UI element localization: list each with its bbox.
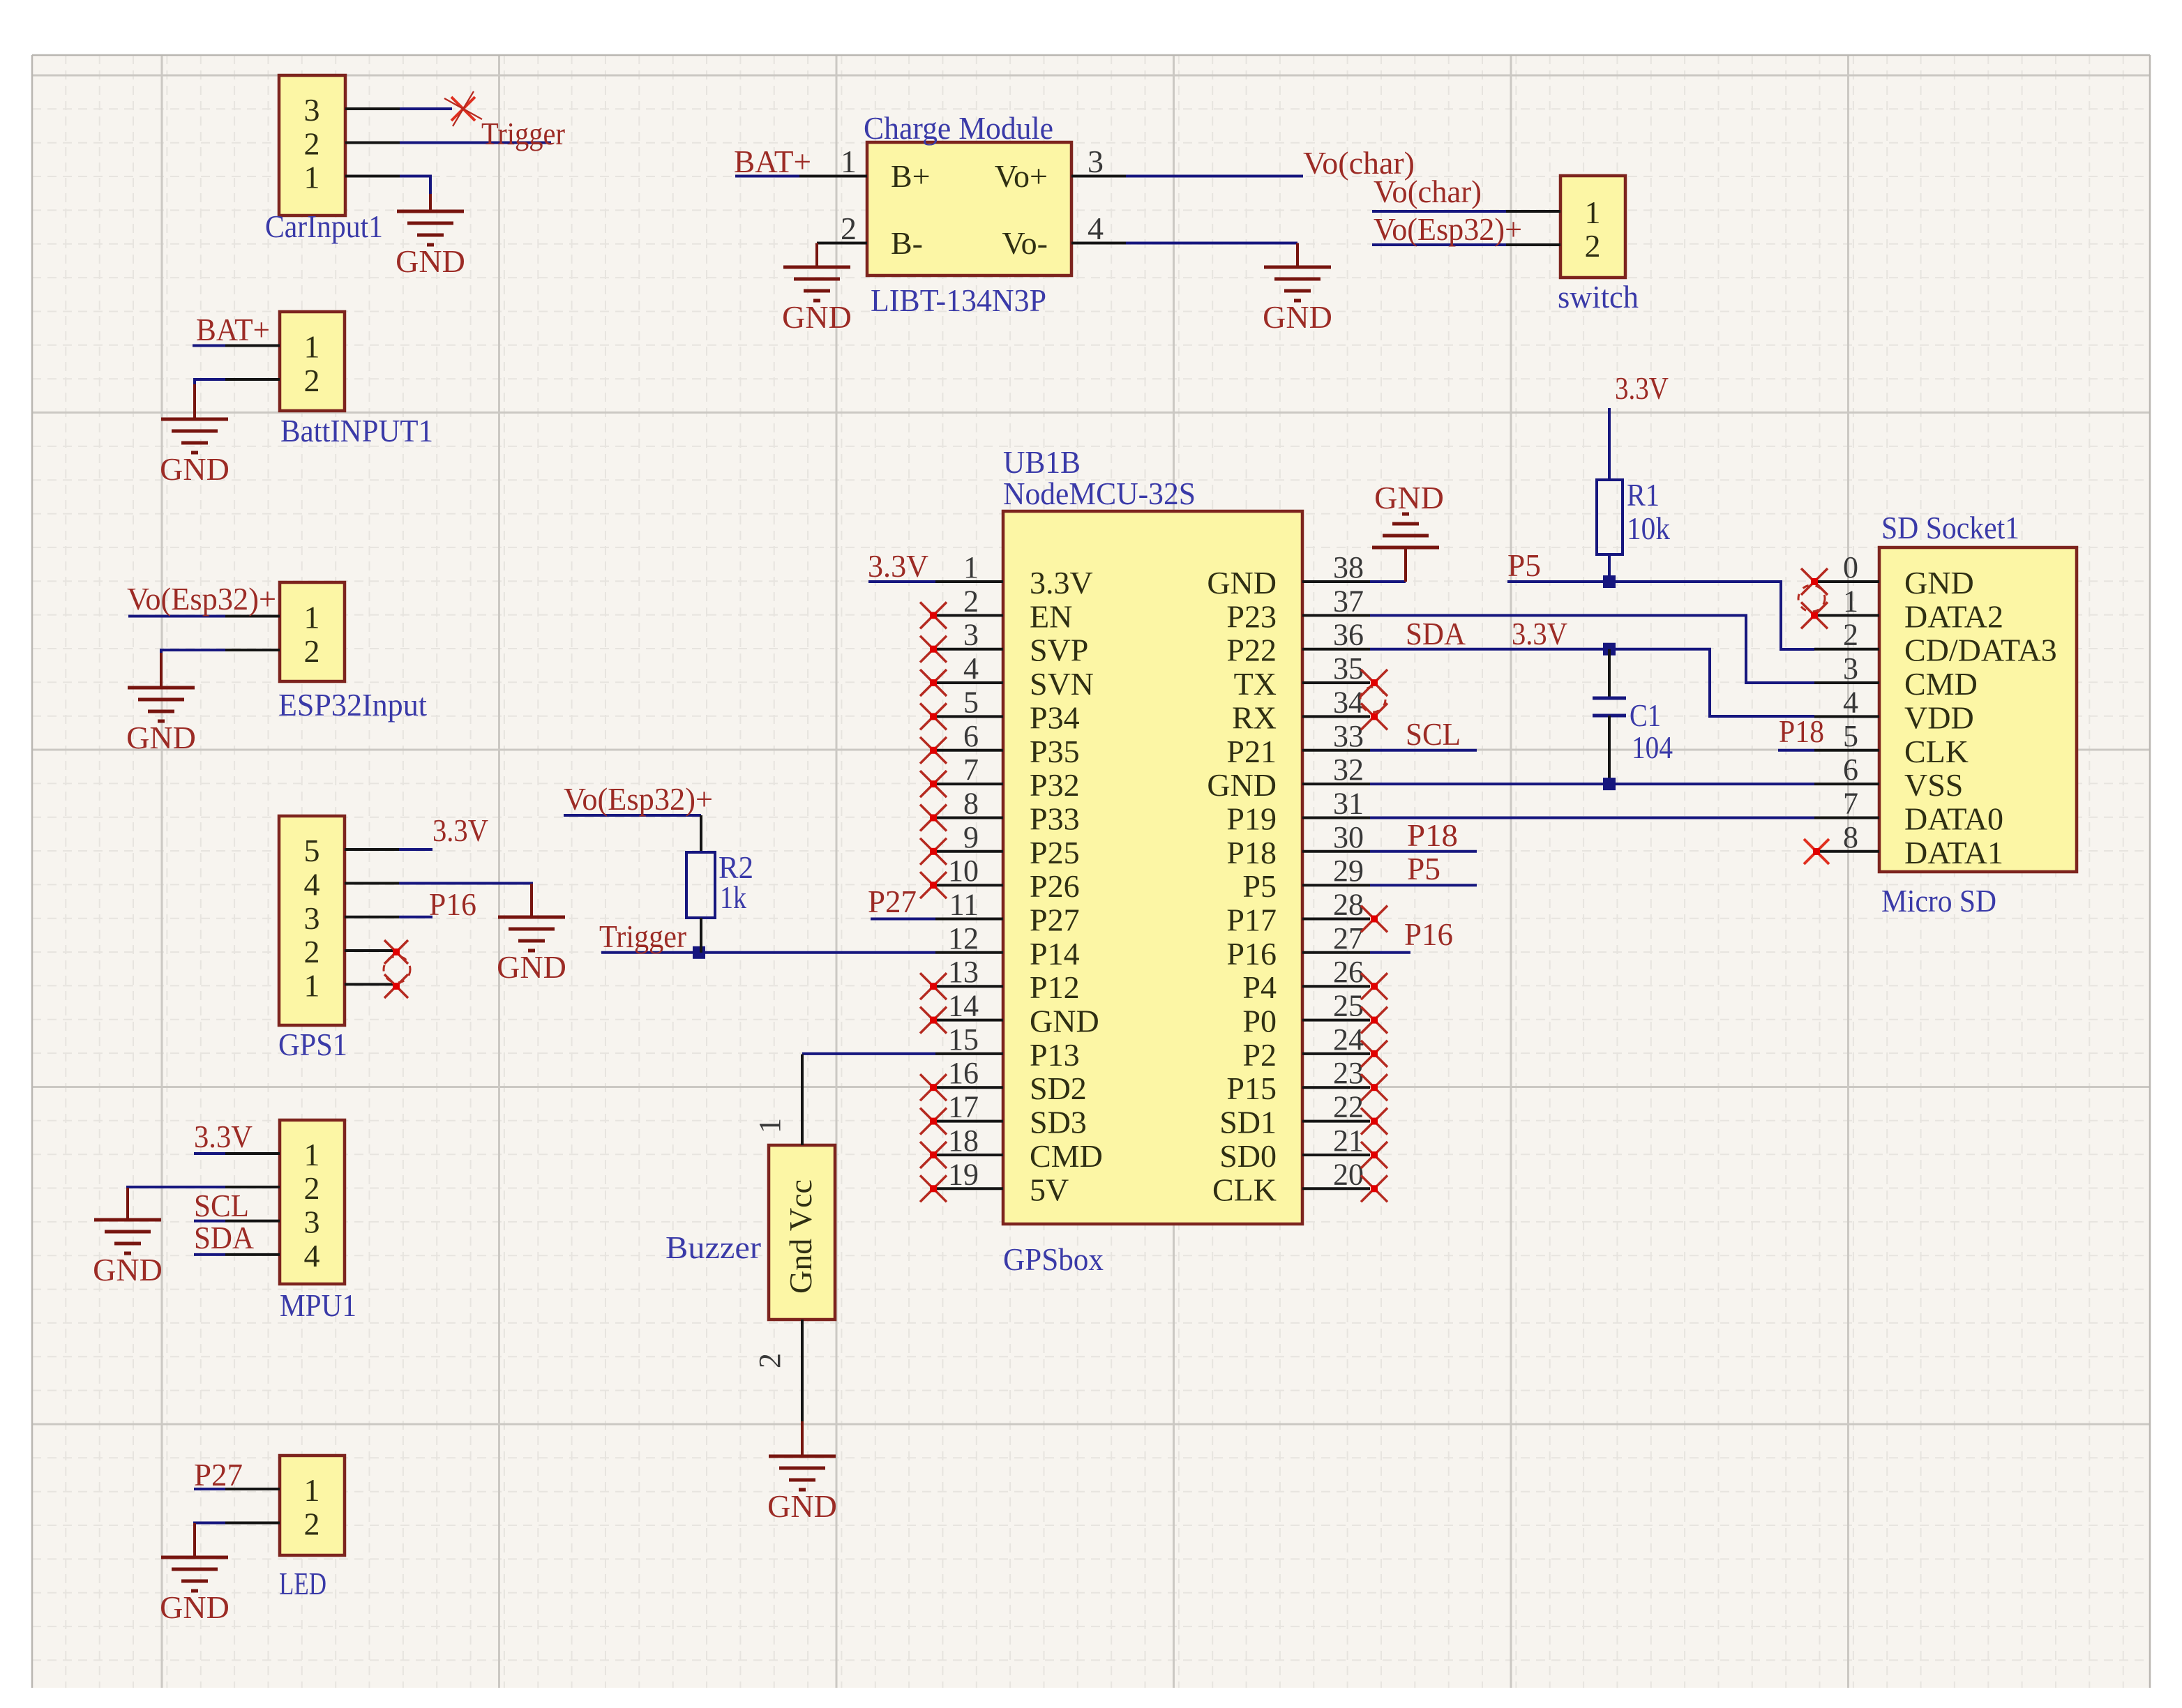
svg-text:VDD: VDD — [1904, 700, 1974, 735]
svg-text:Buzzer: Buzzer — [665, 1230, 761, 1265]
svg-text:2: 2 — [963, 584, 979, 618]
svg-text:4: 4 — [1088, 211, 1104, 246]
svg-text:10k: 10k — [1627, 511, 1670, 546]
svg-text:P19: P19 — [1226, 801, 1277, 837]
SD pin 3 (CMD) — [1814, 681, 1879, 684]
svg-text:P27: P27 — [868, 884, 917, 919]
wire charge Vo- to ground — [1126, 242, 1297, 245]
svg-text:SVN: SVN — [1030, 666, 1094, 702]
svg-text:GPSbox: GPSbox — [1003, 1241, 1104, 1277]
chip pin 8 (P33) — [935, 817, 1003, 819]
wire CarInput pin1 to ground — [400, 176, 430, 195]
svg-text:25: 25 — [1333, 989, 1364, 1023]
no-connect X on chip pin 10 — [920, 872, 947, 898]
svg-text:5V: 5V — [1030, 1172, 1069, 1207]
wire BattINPUT pin2 to ground — [195, 379, 225, 384]
svg-text:3.3V: 3.3V — [194, 1119, 253, 1154]
chip pin 34 (RX) — [1302, 715, 1370, 718]
svg-text:LIBT-134N3P: LIBT-134N3P — [871, 282, 1046, 318]
SD pin 8 (DATA1) — [1814, 850, 1879, 853]
svg-text:P27: P27 — [1030, 902, 1080, 938]
chip pin 20 (CLK) — [1302, 1187, 1370, 1190]
wire net SCL (MPU pin3) — [194, 1220, 225, 1223]
wire net Vo(char) (charge Vo+) — [1126, 175, 1303, 178]
svg-text:P18: P18 — [1407, 817, 1458, 853]
svg-text:CMD: CMD — [1030, 1138, 1103, 1174]
ground GND (charge B-) — [815, 244, 818, 267]
svg-text:P16: P16 — [1404, 916, 1453, 952]
connector ESP32Input — [280, 582, 345, 681]
svg-text:8: 8 — [963, 787, 979, 821]
wire net 3.3V (chip pin1) — [868, 580, 935, 583]
svg-text:104: 104 — [1632, 730, 1673, 765]
chip pin 37 (P23) — [1302, 614, 1370, 617]
svg-text:P22: P22 — [1226, 633, 1277, 668]
no-connect X on SD pin0 — [1801, 568, 1828, 595]
wire net Trigger (CarInput pin2) — [400, 142, 551, 144]
wire net P18 (SD CLK) — [1778, 749, 1814, 752]
wire net Vo(Esp32)+ (switch pin2) — [1372, 243, 1506, 246]
svg-text:GND: GND — [1263, 299, 1332, 335]
no-connect X on chip pin 22 — [1361, 1108, 1387, 1135]
chip pin 35 (TX) — [1302, 681, 1370, 684]
svg-text:GND: GND — [160, 1589, 230, 1625]
no-connect X on CarInput pin3 — [451, 97, 475, 121]
resistor R2 1k — [700, 815, 702, 852]
svg-text:Vo-: Vo- — [1002, 225, 1048, 261]
connector MPU1 — [280, 1120, 345, 1284]
svg-text:Vo(Esp32)+: Vo(Esp32)+ — [1374, 211, 1522, 247]
resistor R1 10k — [1597, 480, 1623, 554]
svg-text:SD0: SD0 — [1219, 1138, 1277, 1174]
chip pin 17 (SD3) — [935, 1120, 1003, 1123]
no-connect X on chip pin 17 — [920, 1108, 947, 1135]
svg-text:5: 5 — [963, 685, 979, 719]
svg-text:3.3V: 3.3V — [868, 548, 928, 584]
no-connect X on chip pin 19 — [920, 1175, 947, 1202]
capacitor C1 104 — [1608, 649, 1611, 698]
svg-text:C1: C1 — [1630, 697, 1661, 733]
svg-text:Trigger: Trigger — [481, 116, 565, 151]
no-connect X on chip pin 13 — [920, 973, 947, 999]
chip pin 15 (P13) — [935, 1052, 1003, 1055]
svg-text:Trigger: Trigger — [599, 919, 686, 954]
junction node C1 bottom — [1603, 778, 1616, 790]
svg-text:SD2: SD2 — [1030, 1071, 1087, 1106]
svg-text:DATA2: DATA2 — [1904, 598, 2003, 634]
junction node Trigger/R2 — [693, 946, 705, 959]
svg-text:5: 5 — [1843, 719, 1858, 753]
no-connect X on SD pin1 — [1801, 602, 1828, 628]
svg-text:26: 26 — [1333, 955, 1364, 989]
svg-text:CLK: CLK — [1212, 1172, 1277, 1207]
svg-text:VSS: VSS — [1904, 767, 1963, 803]
junction node C1 top — [1603, 643, 1616, 656]
svg-text:1: 1 — [304, 1472, 320, 1508]
svg-text:switch: switch — [1558, 279, 1639, 315]
wire net SCL (chip pin33) — [1370, 749, 1477, 752]
svg-text:SCL: SCL — [1406, 716, 1461, 752]
svg-text:R1: R1 — [1627, 477, 1660, 513]
wire net 3.3V (MPU pin1) — [194, 1152, 225, 1155]
svg-text:1k: 1k — [720, 879, 746, 915]
chip pin 3 (SVP) — [935, 648, 1003, 651]
svg-text:P27: P27 — [194, 1457, 243, 1492]
svg-text:P17: P17 — [1226, 902, 1277, 938]
pin 2 (B-) of charge module — [817, 242, 867, 245]
no-connect X on chip pin 5 — [920, 703, 947, 730]
chip pin 38 (GND) — [1302, 580, 1370, 583]
svg-text:BAT+: BAT+ — [196, 312, 270, 347]
SD pin 7 (DATA0) — [1814, 817, 1879, 819]
chip pin 1 (3.3V) — [935, 580, 1003, 583]
wire net Vo(char) (switch pin1) — [1372, 210, 1506, 213]
svg-text:B-: B- — [891, 225, 923, 261]
wire net Trigger (chip pin12) — [601, 951, 935, 954]
svg-text:1: 1 — [304, 329, 320, 365]
svg-text:GND: GND — [782, 299, 852, 335]
chip pin 4 (SVN) — [935, 681, 1003, 684]
svg-text:LED: LED — [279, 1566, 326, 1601]
svg-text:GND: GND — [160, 451, 230, 487]
wire net 3.3V/SDA (chip pin36 to SD VDD) — [1370, 649, 1814, 716]
svg-text:DATA0: DATA0 — [1904, 801, 2003, 837]
svg-text:P0: P0 — [1242, 1004, 1277, 1039]
no-connect X on chip pin 6 — [920, 737, 947, 764]
wire charge B- to ground — [815, 243, 818, 245]
SD pin 2 (CD/DATA3) — [1814, 648, 1879, 651]
svg-text:23: 23 — [1333, 1056, 1364, 1090]
wire CarInput pin3 stub — [400, 107, 452, 110]
ground GND (GPS1) — [530, 884, 533, 917]
ground GND (BattINPUT1) — [193, 384, 196, 419]
svg-text:GND: GND — [1374, 480, 1444, 515]
wire net BAT+ (BattINPUT pin1) — [193, 345, 225, 347]
svg-text:1: 1 — [304, 967, 320, 1003]
svg-text:GND: GND — [767, 1488, 837, 1524]
svg-text:P33: P33 — [1030, 801, 1080, 837]
svg-text:12: 12 — [948, 921, 979, 955]
wire net P5 (R1 bottom to SD CD/DATA3) — [1507, 582, 1814, 649]
svg-text:19: 19 — [948, 1157, 979, 1191]
wire net 3.3V (GPS pin5) — [399, 848, 432, 851]
wire LED pin2 to ground — [195, 1522, 225, 1525]
svg-text:Micro SD: Micro SD — [1881, 883, 1996, 919]
svg-text:8: 8 — [1843, 820, 1858, 854]
chip pin 2 (EN) — [935, 614, 1003, 617]
svg-text:CD/DATA3: CD/DATA3 — [1904, 633, 2057, 668]
svg-text:4: 4 — [963, 651, 979, 686]
connector CarInput1 — [279, 75, 345, 216]
no-connect X on chip pin 7 — [920, 771, 947, 797]
svg-text:3: 3 — [1088, 144, 1104, 179]
svg-text:3: 3 — [304, 92, 320, 128]
chip pin 31 (P19) — [1302, 817, 1370, 819]
svg-text:2: 2 — [1585, 228, 1601, 264]
no-ERC dashed circle (chip pins 35/34) — [1360, 687, 1385, 712]
wire chip pin38 to ground — [1370, 580, 1406, 583]
SD pin 0 (GND) — [1814, 580, 1879, 583]
svg-text:22: 22 — [1333, 1090, 1364, 1124]
svg-text:35: 35 — [1333, 651, 1364, 686]
wire net 3.3V (R1 top) — [1608, 408, 1611, 480]
wire net SDA (MPU pin4) — [194, 1253, 225, 1256]
IC UB1B NodeMCU-32S (GPSbox) — [1003, 511, 1302, 1224]
chip pin 6 (P35) — [935, 749, 1003, 752]
svg-text:1: 1 — [304, 600, 320, 635]
svg-text:2: 2 — [841, 211, 857, 246]
svg-text:P16: P16 — [1226, 936, 1277, 972]
svg-text:SD Socket1: SD Socket1 — [1881, 510, 2019, 545]
pin 1 (B+) of charge module — [799, 175, 867, 178]
no-connect X on chip pin 25 — [1361, 1007, 1387, 1034]
svg-text:7: 7 — [963, 753, 979, 787]
wire net P19 (chip pin31 to SD DATA0) — [1370, 817, 1814, 819]
wire net P5 (chip pin29) — [1370, 884, 1477, 886]
svg-text:3.3V: 3.3V — [432, 813, 488, 848]
buzzer pin 1 — [801, 1055, 804, 1145]
svg-text:P35: P35 — [1030, 734, 1080, 769]
svg-text:1: 1 — [963, 550, 979, 584]
chip pin 32 (GND) — [1302, 783, 1370, 785]
svg-text:SCL: SCL — [194, 1188, 249, 1223]
svg-text:33: 33 — [1333, 719, 1364, 753]
svg-text:3: 3 — [1843, 651, 1858, 686]
svg-text:GND: GND — [1207, 565, 1277, 600]
no-connect X on chip pin 21 — [1361, 1142, 1387, 1168]
svg-text:10: 10 — [948, 854, 979, 888]
no-connect X on chip pin 18 — [920, 1142, 947, 1168]
SD pin 1 (DATA2) — [1814, 614, 1879, 617]
svg-text:Vo(Esp32)+: Vo(Esp32)+ — [564, 781, 713, 817]
wire net Vo(Esp32)+ (ESP32Input pin1) — [128, 615, 225, 618]
svg-text:P18: P18 — [1779, 713, 1824, 749]
chip pin 14 (GND) — [935, 1019, 1003, 1022]
svg-text:31: 31 — [1333, 787, 1364, 821]
svg-text:P26: P26 — [1030, 868, 1080, 904]
svg-text:27: 27 — [1333, 921, 1364, 955]
svg-text:1: 1 — [841, 144, 857, 179]
wire net BAT+ (charge B+) — [735, 175, 799, 178]
svg-text:17: 17 — [948, 1090, 979, 1124]
chip pin 29 (P5) — [1302, 884, 1370, 886]
connector GPS1 — [279, 816, 345, 1025]
svg-text:1: 1 — [753, 1118, 787, 1133]
component Buzzer — [769, 1145, 835, 1320]
chip pin 5 (P34) — [935, 715, 1003, 718]
wire net P18 (chip pin30) — [1370, 850, 1477, 853]
svg-text:2: 2 — [304, 1506, 320, 1542]
svg-text:NodeMCU-32S: NodeMCU-32S — [1003, 476, 1196, 511]
svg-text:7: 7 — [1843, 787, 1858, 821]
svg-text:29: 29 — [1333, 854, 1364, 888]
svg-text:P15: P15 — [1226, 1071, 1277, 1106]
ground GND (MPU1) — [126, 1188, 129, 1220]
svg-text:P16: P16 — [429, 886, 476, 922]
svg-text:9: 9 — [963, 820, 979, 854]
svg-text:CMD: CMD — [1904, 666, 1978, 702]
no-connect X on chip pin 9 — [920, 838, 947, 865]
wire GPS pin4 to ground — [399, 882, 532, 886]
chip pin 21 (SD0) — [1302, 1154, 1370, 1156]
wire net P23 (chip pin37 to SD CMD) — [1370, 615, 1814, 683]
svg-text:GPS1: GPS1 — [278, 1027, 347, 1062]
wire net P16 (chip pin27) — [1370, 951, 1410, 954]
svg-text:2: 2 — [1843, 618, 1858, 652]
svg-text:1: 1 — [304, 160, 320, 195]
svg-text:24: 24 — [1333, 1022, 1364, 1057]
svg-text:2: 2 — [304, 363, 320, 398]
svg-text:5: 5 — [304, 833, 320, 868]
no-connect X on GPS pin2 — [384, 940, 408, 964]
chip pin 18 (CMD) — [935, 1154, 1003, 1156]
wire MPU pin2 to ground — [128, 1187, 225, 1188]
svg-text:38: 38 — [1333, 550, 1364, 584]
no-connect X on chip pin 16 — [920, 1074, 947, 1101]
connector BattINPUT1 — [280, 312, 345, 411]
chip pin 19 (5V) — [935, 1187, 1003, 1190]
no-connect X on chip pin 2 — [920, 602, 947, 628]
svg-text:DATA1: DATA1 — [1904, 835, 2003, 870]
svg-text:P32: P32 — [1030, 767, 1080, 803]
svg-text:RX: RX — [1232, 700, 1277, 735]
svg-text:P13: P13 — [1030, 1037, 1080, 1073]
svg-text:B+: B+ — [891, 158, 931, 194]
svg-text:1: 1 — [304, 1137, 320, 1172]
chip pin 25 (P0) — [1302, 1019, 1370, 1022]
svg-text:P14: P14 — [1030, 936, 1080, 972]
svg-text:18: 18 — [948, 1124, 979, 1158]
svg-text:SDA: SDA — [194, 1220, 254, 1255]
chip pin 30 (P18) — [1302, 850, 1370, 853]
svg-text:P5: P5 — [1407, 851, 1440, 886]
svg-text:GND: GND — [93, 1252, 163, 1287]
chip pin 23 (P15) — [1302, 1086, 1370, 1089]
connector SD Socket1 (Micro SD) — [1879, 547, 2077, 872]
svg-text:P21: P21 — [1226, 734, 1277, 769]
svg-text:BAT+: BAT+ — [734, 144, 811, 179]
svg-text:SD1: SD1 — [1219, 1105, 1277, 1140]
chip pin 13 (P12) — [935, 985, 1003, 988]
svg-text:P5: P5 — [1242, 868, 1277, 904]
svg-text:Gnd Vcc: Gnd Vcc — [783, 1179, 818, 1294]
svg-text:1: 1 — [1585, 195, 1601, 230]
svg-text:P4: P4 — [1242, 969, 1277, 1005]
no-connect X on chip pin 3 — [920, 636, 947, 663]
svg-text:2: 2 — [304, 934, 320, 969]
svg-text:GND: GND — [126, 720, 196, 755]
ground GND (chip pin38, inverted) — [1404, 547, 1407, 582]
svg-text:P25: P25 — [1030, 835, 1080, 870]
chip pin 12 (P14) — [935, 951, 1003, 954]
svg-text:14: 14 — [948, 989, 979, 1023]
svg-text:30: 30 — [1333, 820, 1364, 854]
chip pin 36 (P22) — [1302, 648, 1370, 651]
no-connect X on SD pin8 — [1804, 839, 1829, 864]
SD pin 5 (CLK) — [1814, 749, 1879, 752]
svg-text:CarInput1: CarInput1 — [265, 209, 383, 244]
pin 3 (Vo+) of charge module — [1071, 175, 1126, 178]
chip pin 22 (SD1) — [1302, 1120, 1370, 1123]
svg-text:MPU1: MPU1 — [280, 1287, 356, 1323]
chip pin 27 (P16) — [1302, 951, 1370, 954]
svg-text:3: 3 — [304, 1204, 320, 1240]
svg-text:6: 6 — [1843, 753, 1858, 787]
no-connect X on chip pin 4 — [920, 670, 947, 696]
svg-text:Vo(Esp32)+: Vo(Esp32)+ — [127, 581, 276, 617]
no-connect X on chip pin 26 — [1361, 973, 1387, 999]
svg-text:P12: P12 — [1030, 969, 1080, 1005]
SD pin 4 (VDD) — [1814, 715, 1879, 718]
svg-text:SD3: SD3 — [1030, 1105, 1087, 1140]
svg-text:SDA: SDA — [1406, 616, 1466, 651]
svg-text:34: 34 — [1333, 685, 1364, 719]
svg-text:P5: P5 — [1507, 547, 1541, 583]
svg-text:4: 4 — [304, 1238, 320, 1274]
svg-text:Vo(char): Vo(char) — [1374, 174, 1482, 209]
svg-text:3.3V: 3.3V — [1030, 565, 1093, 600]
svg-text:GND: GND — [396, 243, 465, 279]
connector LED — [280, 1456, 345, 1555]
no-connect X on chip pin 14 — [920, 1007, 947, 1034]
junction node P5/R1 — [1603, 575, 1616, 588]
buzzer pin 2 — [801, 1320, 804, 1421]
svg-text:2: 2 — [304, 126, 320, 162]
svg-text:21: 21 — [1333, 1124, 1364, 1158]
module U? Charge Module LIBT-134N3P — [867, 142, 1071, 275]
no-connect X on chip pin 35 — [1361, 670, 1387, 696]
svg-text:2: 2 — [753, 1353, 787, 1368]
chip pin 7 (P32) — [935, 783, 1003, 785]
svg-text:BattINPUT1: BattINPUT1 — [280, 413, 433, 448]
wire net P16 (GPS pin3) — [399, 916, 432, 919]
svg-text:TX: TX — [1234, 666, 1277, 702]
ground GND (buzzer) — [801, 1421, 804, 1456]
SD pin 6 (VSS) — [1814, 783, 1879, 785]
no-connect X on chip pin 34 — [1361, 703, 1387, 730]
svg-text:2: 2 — [304, 633, 320, 669]
svg-text:3.3V: 3.3V — [1615, 370, 1669, 406]
ground GND (CarInput1) — [429, 194, 432, 211]
svg-text:1: 1 — [1843, 584, 1858, 618]
wire ESP32Input pin2 to ground — [161, 650, 225, 653]
svg-text:15: 15 — [948, 1022, 979, 1057]
no-ERC dashed circle (GPS pins) — [384, 956, 410, 983]
svg-text:Vo+: Vo+ — [995, 158, 1048, 194]
wire net Vo(Esp32)+ (R2 top) — [564, 814, 701, 817]
svg-text:Charge Module: Charge Module — [864, 110, 1053, 146]
no-connect X on chip pin 24 — [1361, 1041, 1387, 1067]
chip pin 11 (P27) — [935, 918, 1003, 921]
chip pin 28 (P17) — [1302, 918, 1370, 921]
svg-text:P2: P2 — [1242, 1037, 1277, 1073]
svg-text:P34: P34 — [1030, 700, 1080, 735]
svg-text:3: 3 — [963, 618, 979, 652]
svg-text:20: 20 — [1333, 1157, 1364, 1191]
no-connect X on chip pin 20 — [1361, 1175, 1387, 1202]
svg-text:SVP: SVP — [1030, 633, 1088, 668]
svg-text:0: 0 — [1843, 550, 1858, 584]
chip pin 33 (P21) — [1302, 749, 1370, 752]
svg-text:2: 2 — [304, 1170, 320, 1206]
svg-text:32: 32 — [1333, 753, 1364, 787]
ground GND (LED) — [193, 1523, 196, 1557]
wire net P13 buzzer (chip pin15) — [802, 1052, 935, 1055]
svg-text:28: 28 — [1333, 888, 1364, 922]
wire net GND (chip pin32 to SD VSS) — [1370, 783, 1814, 785]
chip pin 16 (SD2) — [935, 1086, 1003, 1089]
svg-text:13: 13 — [948, 955, 979, 989]
